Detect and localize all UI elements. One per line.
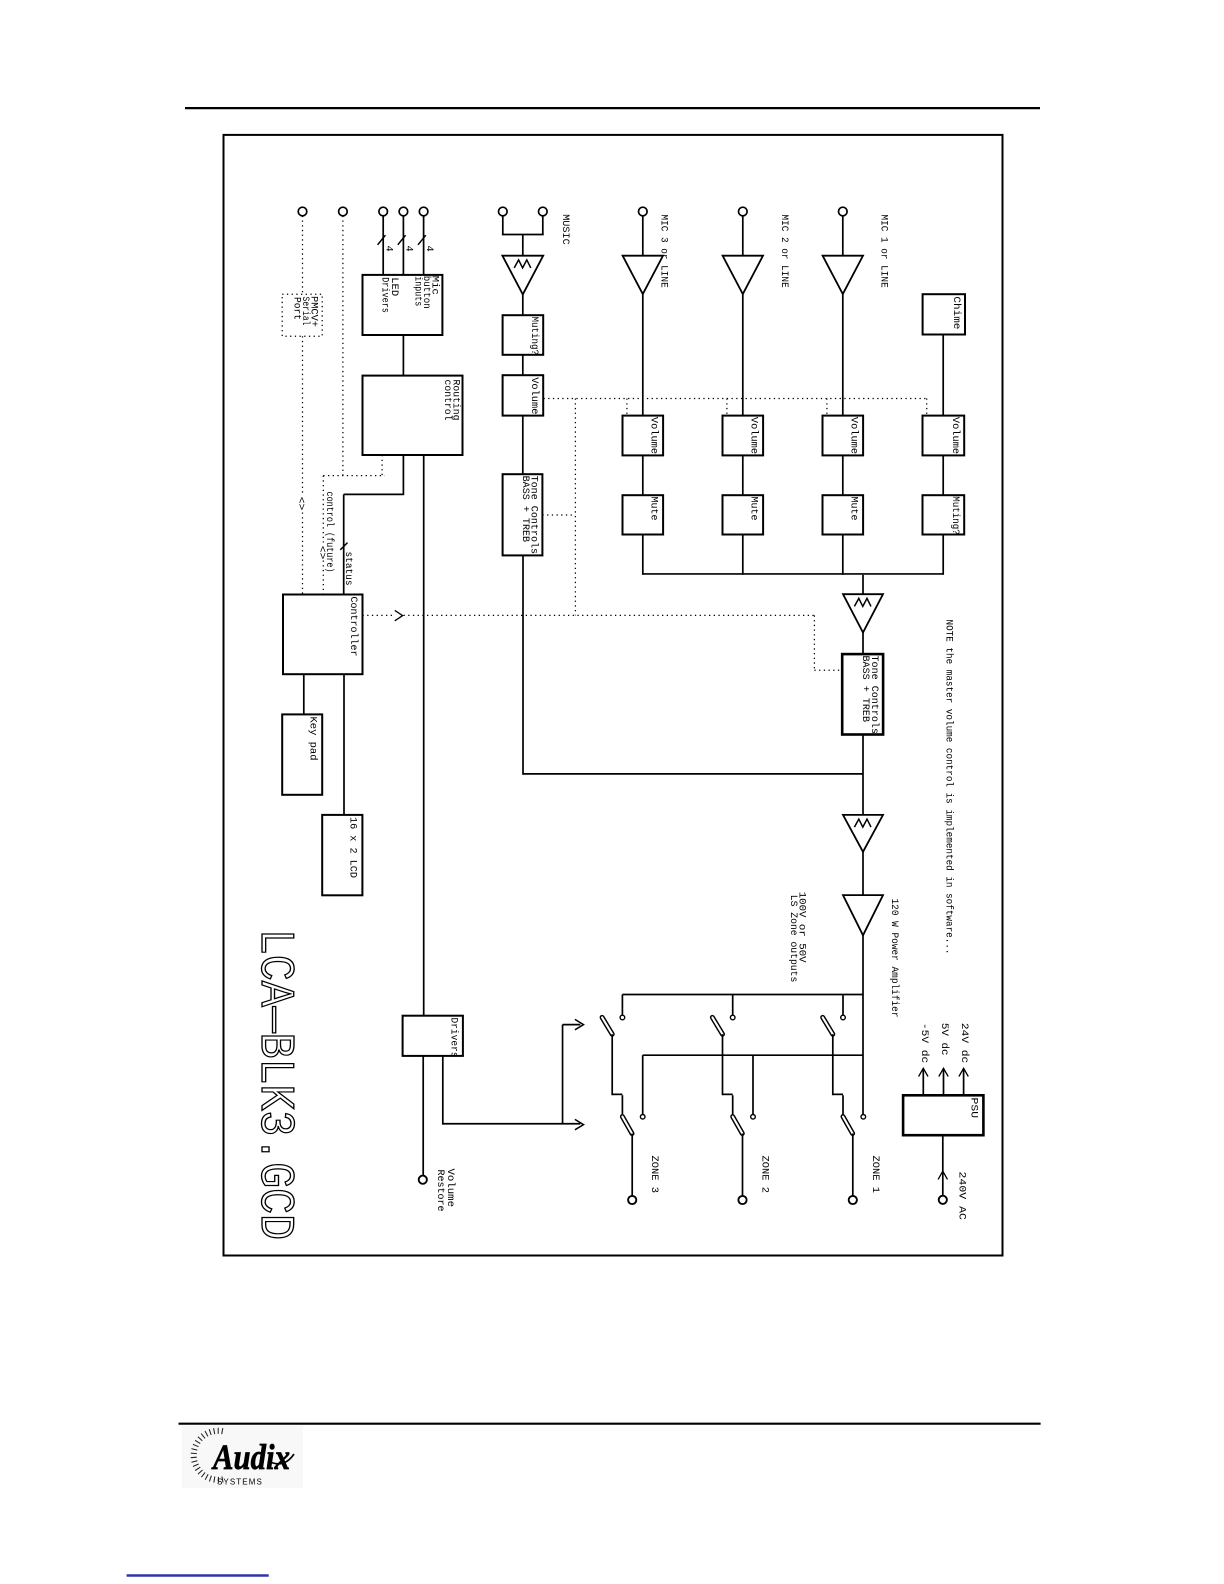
zone 2 bus A contact [730,1015,735,1020]
wire: master tone controls to line amp (music joins) [862,735,864,815]
box PSU [903,1095,983,1135]
wire: master amp to master tone controls [862,633,864,655]
svg-text:<>: <> [295,497,306,511]
zone 2 selector switch lever lower [733,1117,743,1134]
zone 1 selector switch lever upper [823,1017,833,1034]
zone 1 bus A contact stub [842,995,844,1016]
Volume Restore terminal [419,1176,427,1184]
wire: routing control to zone drivers [423,455,425,1016]
mic button input terminal 1 [379,207,388,216]
zone 1 bus A contact [841,1015,846,1020]
svg-text:SYSTEMS: SYSTEMS [217,1478,265,1487]
MUSIC input terminal L [499,207,508,216]
wire: MIC 3 amp to Volume box [642,294,644,416]
svg-text:Mute: Mute [648,497,659,521]
label status [342,552,353,586]
wire: mix bus to master amp [862,575,864,594]
svg-text:BASS + TREB: BASS + TREB [859,656,870,723]
svg-text:MIC 1 or LINE: MIC 1 or LINE [878,215,889,288]
wire: mic button input 2 to Mic button inputs box [402,216,404,275]
svg-text:24V dc: 24V dc [958,1023,970,1063]
wire: MIC 2 terminal to input amp [742,216,744,256]
zone 2 bus A contact stub [732,995,734,1016]
MIC 2 input amp [723,256,763,294]
label MIC 3 or LINE [658,215,669,288]
svg-text:-5V dc: -5V dc [918,1023,930,1063]
svg-text:Volume: Volume [949,417,961,454]
label ZONE 3 [648,1156,659,1194]
mix bus wire [643,573,943,575]
MIC 1 input amp [823,256,863,294]
svg-text:inputs: inputs [412,276,424,306]
wire: power amp output down to zone switch contacts [862,935,864,1114]
svg-text:LS Zone outputs: LS Zone outputs [787,895,798,983]
svg-text:control (future): control (future) [323,492,335,573]
box Mute (MIC 2) [723,495,764,534]
zone 2 bus B contact [751,1115,756,1120]
bus-width slash mark 1 [378,235,386,245]
box Tone Controls BASS + TREB (master) [842,654,883,734]
dotted wire: control future tee [323,475,384,477]
svg-text:Restore: Restore [434,1170,445,1212]
svg-text:Muting?: Muting? [949,496,961,535]
svg-text:BASS + TREB: BASS + TREB [519,476,530,542]
zone 3 bus B contact riser [642,1055,644,1114]
bus-width slash mark 2 [398,235,406,245]
zone 3 selector switch lever upper [602,1017,612,1034]
top rule [185,107,1040,109]
120 W power amplifier [843,895,883,935]
LS output bus B [643,1054,863,1056]
ZONE 2 output terminal [738,1196,746,1204]
dotted box PMCV+ Serial Port [282,294,322,336]
svg-text:Volume: Volume [648,417,660,454]
svg-text:4: 4 [423,246,434,252]
label 4 (bus width 1) [383,246,394,252]
MIC 3 input amp [623,256,663,294]
arrowhead to lower switch bank [575,1119,584,1129]
box Chime generator [923,294,965,334]
svg-text:Volume: Volume [848,417,860,454]
240V AC input wire with arrow [938,1135,947,1195]
svg-text:control: control [441,380,453,421]
240V AC terminal [939,1196,947,1204]
master line amp (variable gain) [843,815,883,852]
svg-text:MIC 3 or LINE: MIC 3 or LINE [658,215,669,288]
box Mute (MIC 3) [623,495,664,534]
wire: MIC 1 amp to Volume box [842,294,844,416]
label control (future) [323,492,335,573]
music input amp (variable gain) [502,256,543,295]
wire: MIC 1 Mute to mix bus [842,535,844,575]
bidirectional marker on serial link [295,497,306,511]
svg-text:Volume: Volume [528,377,540,414]
footer blue rule [127,1574,269,1577]
svg-text:4: 4 [383,246,394,252]
wire: MIC 3 Mute to mix bus [642,535,644,575]
wire: MIC 2 amp to Volume box [742,294,744,416]
box Volume (chime) [923,416,965,456]
svg-text:240V AC: 240V AC [956,1172,967,1220]
wire: MIC 3 Volume to Mute [642,455,644,495]
svg-text:Mute: Mute [848,497,859,521]
label ZONE 1 [869,1156,880,1194]
box Volume (MIC 2) [723,416,764,456]
label 100V or 50V [796,892,807,963]
svg-text:LCA—BLK3.GCD: LCA—BLK3.GCD [247,929,301,1240]
svg-text:ZONE 2: ZONE 2 [759,1156,770,1194]
svg-text:Audix: Audix [211,1437,290,1477]
svg-text:Key pad: Key pad [307,717,319,761]
dotted wire: control future to Controller [322,476,324,595]
svg-text:4: 4 [403,246,414,252]
label 240V AC [956,1172,967,1220]
zone 1 bus B contact [861,1115,866,1120]
MIC 1 input terminal [839,207,848,216]
bottom rule [179,1423,1041,1425]
svg-text:Port: Port [291,297,302,320]
wire: MIC 2 Mute to mix bus [742,535,744,575]
wire: chime Muting to mix bus [942,535,944,575]
wire: music Muting to Volume [522,355,524,375]
svg-text:5V dc: 5V dc [938,1023,950,1056]
box Volume (music master) [503,375,544,415]
wire: MIC 2 Volume to Mute [742,455,744,495]
svg-text:ZONE 1: ZONE 1 [869,1156,880,1194]
ZONE 3 output terminal [628,1196,636,1204]
MUSIC input terminal R [539,207,548,216]
box 16 x 2 LCD [322,815,362,895]
wire: line amp to power amp [862,852,864,895]
wire: zone 2 switch to output terminal [742,1134,744,1196]
wire: music Volume to Tone Controls [522,416,524,475]
box Muting? (music) [503,315,544,355]
svg-text:NOTE the master volume control: NOTE the master volume control is implem… [943,620,955,955]
Audix Systems logo [182,1426,303,1488]
wire: Drivers to zone switch actuators [443,1025,581,1125]
LS output bus A [622,994,863,996]
zone 3 bus A contact stub [621,995,623,1016]
wire: MIC 3 terminal to input amp [642,216,644,256]
label MIC 1 or LINE [878,215,889,288]
dotted stub to routing control [381,455,383,476]
zone 2 selector switch lever upper [712,1017,722,1034]
box Volume (MIC 3) [623,416,664,456]
zone 1 switch pole wire [833,1034,843,1116]
control (future) terminal [339,207,348,216]
arrowhead on controller control line [395,610,403,620]
svg-text:Chime: Chime [950,296,962,329]
zone 2 bus B contact riser [752,1055,754,1114]
label MIC 2 or LINE [778,215,789,288]
wire: music tone controls output joins master chain [523,555,863,774]
wire: chime Volume to Muting [942,455,944,495]
dotted wire: serial port box to Controller [302,336,304,594]
arrowhead to upper switch bank [575,1019,584,1029]
svg-text:16 x 2 LCD: 16 x 2 LCD [347,817,358,878]
zone 3 bus A contact [620,1015,625,1020]
wire: Controller to LCD [343,674,345,815]
wire: zone 1 switch to output terminal [852,1134,854,1196]
PMCV serial port terminal [298,207,307,216]
MIC 3 input terminal [639,207,648,216]
box Mute (MIC 1) [823,495,864,534]
label 4 (bus width 3) [423,246,434,252]
wire: mic button input 3 to Mic button inputs box [423,216,425,275]
ZONE 1 output terminal [849,1196,857,1204]
wire: MIC 1 terminal to input amp [842,216,844,256]
dotted wire: tone control line junction [542,399,575,616]
svg-text:120 W Power Amplifier: 120 W Power Amplifier [888,899,900,1018]
diagram border frame [224,135,1003,1256]
wire: Controller to Key pad [303,674,305,714]
box Volume (MIC 1) [823,416,864,456]
label NOTE master volume in software [943,620,955,955]
label Volume Restore [434,1169,456,1212]
dotted wire: control future terminal down [342,216,344,476]
PSU output -5V dc [918,1023,930,1095]
box Drivers [403,1016,463,1058]
svg-text:MUSIC: MUSIC [559,214,570,245]
svg-text:Volume: Volume [748,417,760,454]
wire: routing control status output to Controller [344,455,404,595]
svg-text:MIC 2 or LINE: MIC 2 or LINE [778,215,789,288]
box Muting? (chime) [923,495,965,535]
master mix amp (variable gain) [843,594,883,632]
zone 3 switch pole wire [612,1034,622,1116]
svg-text:Drivers: Drivers [448,1018,460,1058]
box Routing control [363,376,463,455]
box Mic button inputs / LED Drivers [363,275,443,335]
wire: music amp to Muting box [522,294,524,315]
label 4 (bus width 2) [403,246,414,252]
drawing title LCA-BLK3.GCD [247,929,301,1240]
dotted wire: volume control line across channels [544,399,927,416]
wire: Chime to Volume [942,335,944,416]
box Controller [283,595,363,675]
dotted wire: PMCV terminal to serial port box [302,216,304,294]
svg-text:Drivers: Drivers [379,277,391,313]
wire: Drivers to Volume Restore terminal [422,1056,424,1176]
PSU output 5V dc [938,1023,950,1095]
label ZONE 2 [759,1156,770,1194]
svg-text:ZONE 3: ZONE 3 [648,1156,659,1194]
wire: mic button input 1 to Mic button inputs box [382,216,384,275]
wire: Mic button box to Routing control [402,335,404,376]
svg-text:PSU: PSU [968,1098,979,1119]
label LS Zone outputs [787,895,798,983]
PSU output 24V dc [958,1023,970,1095]
box Key pad [282,714,322,794]
bus-width slash mark 3 [418,235,426,245]
svg-text:Controller: Controller [347,597,359,657]
zone 2 switch pole wire [723,1034,733,1116]
label 120 W Power Amplifier [888,899,900,1018]
dotted wire: Controller to master tone controls [363,615,843,670]
svg-text:status: status [342,552,353,586]
zone 3 selector switch lever lower [622,1117,632,1134]
bidirectional marker on control future link [315,546,326,560]
label MUSIC [559,214,570,245]
mic button input terminal 3 [419,207,428,216]
box Tone Controls BASS + TREB (music) [503,474,543,555]
wire: MIC 1 Volume to Mute [842,455,844,495]
svg-text:Muting?: Muting? [528,317,540,356]
wire: zone 3 switch to output terminal [631,1134,633,1196]
wire: MUSIC input pair to music amp [502,216,544,256]
svg-text:Mute: Mute [748,497,759,521]
zone 3 bus B contact [640,1115,645,1120]
status bus slash [340,543,347,550]
mic button input terminal 2 [399,207,408,216]
MIC 2 input terminal [739,207,748,216]
zone 1 selector switch lever lower [843,1117,853,1134]
